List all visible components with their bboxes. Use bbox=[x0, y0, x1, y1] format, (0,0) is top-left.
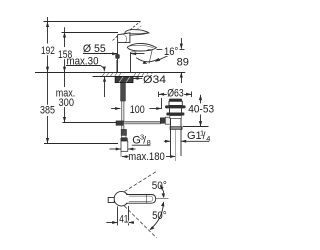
drain: body bbox=[170, 108, 182, 112]
handle top view: lever arm bbox=[126, 195, 156, 204]
dimension Ø55 bbox=[83, 53, 117, 55]
lever blade (closed) bbox=[124, 30, 149, 36]
svg-text:300: 300 bbox=[59, 97, 75, 109]
dimension max.180 bbox=[122, 155, 127, 158]
dashed 50deg line upper bbox=[124, 172, 156, 192]
spout disc bbox=[127, 43, 156, 51]
svg-text:Ø 55: Ø 55 bbox=[83, 43, 106, 55]
drain: tailpipe bbox=[170, 119, 172, 157]
svg-text:50°: 50° bbox=[152, 210, 167, 222]
pull rod below stem bbox=[121, 101, 123, 121]
dimension G3/8 leaders bbox=[110, 148, 122, 150]
svg-text:max.180: max.180 bbox=[128, 151, 165, 163]
wire: deck top extension line bbox=[35, 72, 185, 74]
50deg arc lower bbox=[150, 203, 163, 230]
svg-text:8: 8 bbox=[147, 138, 151, 147]
linkage junction block bbox=[116, 121, 124, 125]
svg-text:max.30: max.30 bbox=[67, 56, 99, 68]
svg-text:Ø63: Ø63 bbox=[167, 88, 183, 100]
svg-text:4: 4 bbox=[206, 134, 210, 143]
wire: 40-53 bottom reference line bbox=[183, 126, 209, 128]
pull rod end nipple (G3/8 box) bbox=[121, 141, 128, 151]
drain: pipe coupling band bbox=[170, 126, 183, 129]
drain: flange lip bbox=[165, 105, 186, 108]
svg-text:385: 385 bbox=[40, 105, 55, 117]
pull rod end knob bbox=[121, 138, 128, 141]
wire: extension line top (raised lever height, 192) bbox=[44, 21, 141, 23]
wire: max.300 bottom reference line bbox=[63, 122, 117, 124]
pull rod knob (behind body) bbox=[115, 54, 119, 59]
drain: lower ring bbox=[170, 116, 181, 119]
drain: neck bbox=[169, 101, 182, 105]
wire: 100 extension line bbox=[161, 98, 163, 109]
wire: 385 bottom reference line bbox=[44, 143, 118, 145]
dimension 100 bbox=[111, 108, 120, 110]
dimension 385: vertical line A lower bbox=[47, 72, 49, 106]
svg-text:40-53: 40-53 bbox=[188, 104, 214, 116]
threaded stem below shank bbox=[121, 83, 126, 101]
linkage housing on drain bbox=[165, 117, 170, 124]
svg-text:41: 41 bbox=[119, 214, 128, 226]
handle top view: front tab bbox=[108, 198, 114, 203]
svg-text:50°: 50° bbox=[152, 180, 167, 192]
linkage clamp nut bbox=[160, 118, 165, 124]
lever pivot box bbox=[118, 33, 130, 43]
rod hex adapter bbox=[121, 129, 126, 135]
dimension 89 bbox=[181, 38, 183, 49]
drain: top band bbox=[169, 99, 182, 102]
svg-text:/: / bbox=[203, 131, 206, 142]
dimension 40-53 bbox=[200, 95, 202, 104]
aerator shading bbox=[147, 49, 153, 51]
svg-text:192: 192 bbox=[41, 45, 55, 57]
water stream line (16 deg) bbox=[149, 50, 152, 64]
shank nut (threaded, dark) bbox=[115, 77, 133, 83]
handle top view: pivot circle bbox=[114, 191, 129, 206]
dimension G1 1/4 leader bbox=[164, 140, 170, 142]
dimension 192: vertical line A upper bbox=[47, 17, 49, 44]
50deg arc upper bbox=[160, 186, 164, 197]
dimension Ø34 leader bbox=[133, 77, 142, 79]
svg-text:100: 100 bbox=[130, 104, 145, 116]
dimension Ø63 bbox=[158, 92, 160, 98]
wire: tailpipe center line bbox=[175, 130, 177, 161]
svg-text:89: 89 bbox=[177, 57, 189, 69]
drain: locknut bbox=[166, 113, 184, 116]
dimension 16deg: leader + angle arc bbox=[157, 49, 163, 51]
dimension 158: vertical line B upper bbox=[64, 27, 66, 47]
wire: handle axis line bbox=[156, 198, 169, 200]
dimension 41 bbox=[117, 207, 119, 226]
lever raised (dashed phantom) bbox=[113, 21, 142, 40]
wire: extension line (closed lever height, 158) bbox=[62, 32, 119, 34]
faucet body column bbox=[118, 43, 131, 72]
dimension max.300: vertical line B lower bbox=[64, 72, 66, 87]
deck (hatched) bbox=[93, 76, 151, 78]
dimension max.30 leader bbox=[66, 65, 100, 67]
pop-up linkage rod bbox=[124, 121, 161, 124]
svg-text:Ø34: Ø34 bbox=[143, 74, 166, 86]
dashed 50deg line lower bbox=[124, 206, 156, 238]
